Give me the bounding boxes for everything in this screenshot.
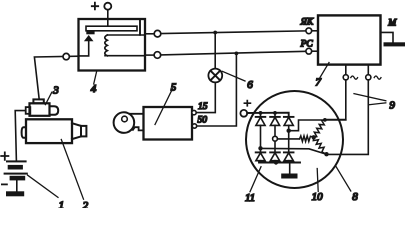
stems top diodes to mid nodes bbox=[261, 125, 289, 152]
wire lamp to terminal 15 bbox=[196, 82, 215, 112]
tilde marks bbox=[351, 76, 358, 79]
svg-text:9: 9 bbox=[389, 100, 395, 112]
junction dots on top bus bbox=[259, 111, 263, 115]
label 6 leader bbox=[222, 71, 245, 81]
node C col3 dot bbox=[287, 129, 291, 133]
upper bus terminal circle at relay 4 bbox=[145, 33, 154, 35]
relay box 4 outline bbox=[79, 19, 146, 71]
regulator bottom terminal circles bbox=[343, 75, 348, 80]
generator plus terminal circle bbox=[240, 110, 247, 117]
label 4 leader bbox=[94, 72, 97, 84]
terminal RS circle bbox=[306, 48, 312, 54]
junction dot bottom bus bbox=[274, 160, 278, 164]
starter relay 3 left nub bbox=[26, 107, 31, 114]
label 11 leader bbox=[250, 167, 261, 192]
starter motor 2 body bbox=[26, 119, 72, 143]
generator 8 circle bbox=[246, 91, 343, 188]
wire regulator right terminal to stator phase3 bbox=[327, 80, 369, 154]
svg-text:М: М bbox=[387, 19, 397, 29]
stubs bus to diode bars bbox=[261, 113, 276, 117]
wire node A to phase3 junction bbox=[261, 148, 327, 154]
stator phase1 zigzag bbox=[300, 136, 314, 142]
label 1 leader bbox=[28, 175, 58, 197]
generator plus terminal sign bbox=[244, 101, 250, 106]
stator winding 10 center dot bbox=[312, 135, 316, 139]
wire M to ground bbox=[381, 32, 394, 42]
key blade bbox=[129, 114, 143, 131]
svg-text:4: 4 bbox=[91, 83, 97, 95]
junction on upper bus bbox=[213, 31, 217, 35]
wire from top terminal into relay 4 bbox=[107, 10, 109, 27]
wire node B to stator phase1 bbox=[277, 138, 299, 140]
terminal circle on wire bbox=[63, 53, 69, 59]
label 9 leaders bbox=[354, 94, 386, 105]
label 2 leader bbox=[61, 140, 83, 200]
wire terminal 50 to lower bus junction bbox=[197, 53, 237, 126]
control lamp 6 bbox=[208, 69, 222, 83]
label 8 leader bbox=[336, 167, 351, 192]
wire battery bottom stub bbox=[16, 180, 18, 191]
starter motor nose cone bbox=[72, 123, 81, 139]
lower bus wire to regulator RS bbox=[161, 51, 306, 55]
plus terminal above relay 4 bbox=[92, 3, 98, 10]
wire from relay box 4 down to starter relay 3 bbox=[34, 56, 78, 99]
label 10 leader bbox=[317, 169, 318, 192]
starter relay 3 top cap bbox=[33, 99, 43, 103]
stator phase2 zigzag bbox=[314, 120, 325, 137]
diode D3 top bbox=[284, 116, 294, 118]
terminal YAK circle bbox=[306, 28, 312, 34]
ground bar M bbox=[384, 42, 405, 46]
label 7 leader bbox=[320, 63, 329, 78]
diode D6 bottom bbox=[284, 151, 294, 153]
junction dot phase3 end bbox=[324, 152, 328, 156]
ground stem bbox=[289, 163, 291, 174]
rectifier bottom bus bbox=[259, 162, 300, 164]
relay 4 contact arrow bbox=[84, 35, 94, 41]
diode D1 top bbox=[256, 116, 266, 118]
starter motor nose tip bbox=[81, 126, 86, 136]
upper bus wire to regulator YAK bbox=[161, 31, 306, 34]
terminal circle above relay 4 bbox=[104, 3, 111, 10]
svg-text:15: 15 bbox=[198, 102, 208, 112]
rectifier top bus bbox=[247, 113, 289, 117]
svg-text:7: 7 bbox=[315, 77, 321, 89]
diode D5 bottom bbox=[270, 151, 280, 153]
starter relay 3 body bbox=[30, 103, 50, 116]
wire battery top to starter relay nub bbox=[15, 111, 25, 161]
battery GB1 plus-sign bbox=[1, 152, 8, 159]
node B col2 open circle bbox=[273, 136, 278, 141]
relay 4 contact bar bbox=[86, 26, 137, 31]
relay 4 moving contact bbox=[86, 31, 94, 34]
svg-text:10: 10 bbox=[312, 191, 324, 203]
relay 4 coil top wire bbox=[107, 34, 145, 36]
svg-text:1: 1 bbox=[59, 200, 65, 208]
wire node C to phase2 line bbox=[289, 120, 346, 131]
battery GB1 minus-sign bbox=[2, 183, 7, 185]
junction on lower bus bbox=[235, 52, 239, 56]
svg-text:5: 5 bbox=[171, 81, 177, 93]
svg-text:2: 2 bbox=[83, 200, 89, 208]
ignition switch 5 box bbox=[144, 107, 193, 140]
node A col1 dot bbox=[258, 146, 262, 150]
svg-text:3: 3 bbox=[52, 84, 59, 96]
regulator box 7 outline bbox=[318, 15, 381, 64]
starter relay 3 right nub bbox=[50, 106, 59, 115]
terminal 15 circle bbox=[192, 110, 196, 114]
wire arrow to left exit bbox=[79, 41, 89, 56]
key head circle bbox=[114, 112, 135, 133]
starter motor left bump bbox=[22, 127, 26, 138]
relay 4 fixed contact post bbox=[139, 20, 141, 35]
battery GB1 plates bbox=[4, 160, 28, 180]
relay 4 coil bottom wire bbox=[105, 55, 145, 57]
diode D2 top bbox=[270, 116, 280, 118]
lower bus terminal circle at relay 4 bbox=[145, 54, 154, 56]
relay 4 coil bbox=[105, 35, 108, 56]
wire upper bus to lamp bbox=[214, 33, 216, 69]
svg-text:РС: РС bbox=[300, 40, 314, 50]
key hole bbox=[122, 116, 128, 122]
terminal 50 circle bbox=[192, 124, 196, 128]
svg-text:50: 50 bbox=[198, 116, 208, 126]
label 3 leader bbox=[45, 92, 51, 104]
svg-text:ЯК: ЯК bbox=[300, 17, 314, 27]
stems bottom diodes to bottom bus bbox=[261, 161, 289, 163]
svg-text:8: 8 bbox=[352, 191, 358, 203]
wire regulator left terminal to stator phase2 bbox=[325, 80, 346, 120]
ground bar under battery bbox=[6, 191, 24, 196]
diode D4 bottom bbox=[256, 151, 266, 153]
junction dot phase2 top bbox=[323, 118, 327, 122]
regulator bottom terminal stubs bbox=[346, 65, 369, 75]
svg-text:11: 11 bbox=[245, 192, 255, 204]
label 5 leader bbox=[155, 89, 173, 125]
svg-text:6: 6 bbox=[247, 79, 253, 91]
stator phase3 zigzag bbox=[313, 137, 326, 154]
ground bar rectifier bbox=[281, 174, 297, 179]
